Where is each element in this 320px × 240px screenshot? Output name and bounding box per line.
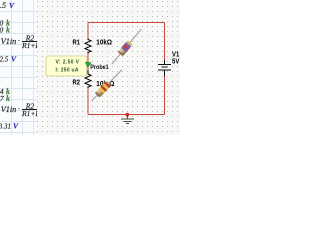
math line: R2 value 0 k (clipped) — [0, 26, 10, 35]
svg-text:Probe1: Probe1 — [90, 65, 109, 71]
svg-text:2.5: 2.5 — [0, 56, 9, 64]
probe1 green arrow marker — [85, 62, 91, 67]
svg-text:10kΩ: 10kΩ — [96, 39, 112, 47]
svg-text:k: k — [6, 94, 10, 103]
svg-text:V1in: V1in — [1, 37, 16, 46]
wire: left vertical below R2 — [87, 88, 89, 114]
math line: .7 k (clipped 4.7k) — [0, 94, 10, 103]
svg-text:V1in: V1in — [1, 105, 16, 114]
svg-text:.5: .5 — [0, 1, 6, 10]
math formula 1: V1in*R2/(R1+R2) — [1, 34, 44, 51]
math result: 3.31 V — [0, 122, 19, 131]
svg-text:3.31: 3.31 — [0, 123, 11, 131]
svg-text:k: k — [6, 26, 10, 35]
resistor R2 symbol (zigzag) — [85, 70, 91, 88]
svg-text:V: 2.50 V: V: 2.50 V — [56, 60, 80, 66]
photo resistor over R1 — [109, 27, 144, 67]
math formula 2: V1in*R2/(R1+R2) — [1, 102, 44, 119]
math line: .5 V (clipped assignment) — [0, 1, 15, 10]
math result: 2.5 V — [0, 55, 17, 64]
wire: bottom horizontal — [88, 114, 164, 116]
svg-text:R2: R2 — [73, 79, 81, 87]
probe tooltip box — [46, 56, 87, 76]
wire: right vertical lower (from battery) — [163, 76, 165, 114]
svg-text:0: 0 — [0, 26, 4, 35]
wire: top horizontal — [88, 23, 164, 115]
resistor R1 symbol (zigzag) — [85, 39, 91, 54]
wire: node between R1 and R2 — [87, 54, 89, 71]
junction dot at ground node — [125, 113, 129, 117]
svg-text:·: · — [18, 37, 21, 46]
wire: left vertical above R1 — [87, 23, 89, 39]
schematic canvas background — [37, 0, 180, 135]
photo resistor over R2 — [89, 68, 124, 104]
svg-text:I: 250 uA: I: 250 uA — [56, 68, 79, 74]
math sheet background — [0, 0, 37, 135]
math line: .4 k (clipped 2.4k) — [0, 87, 10, 96]
svg-text:R1: R1 — [73, 39, 81, 47]
svg-text:.7: .7 — [0, 94, 4, 103]
wire: right vertical upper (to battery) — [163, 23, 165, 61]
ground symbol — [121, 115, 134, 124]
svg-text:5V: 5V — [172, 58, 180, 66]
math line: R1 value 0 k (clipped) — [0, 19, 10, 28]
svg-text:·: · — [18, 105, 21, 114]
battery V1 symbol — [158, 60, 171, 76]
